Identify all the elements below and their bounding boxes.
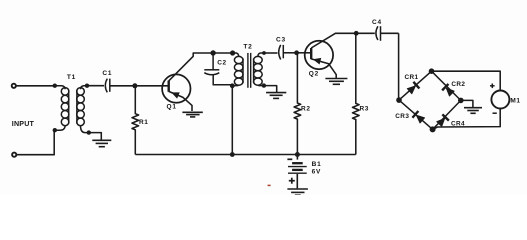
node bottom rail / R2 / B1 bbox=[295, 152, 300, 157]
ground below battery bbox=[287, 189, 308, 195]
wire bridge right vertex to ground bbox=[461, 100, 473, 107]
red speck artifact bbox=[268, 184, 271, 186]
node A (C1/R1/Q1 base) bbox=[132, 83, 137, 88]
input terminal top bbox=[12, 84, 16, 88]
input terminal bottom bbox=[12, 153, 16, 157]
battery minus sign bbox=[287, 158, 292, 160]
node T2 secondary top bbox=[262, 51, 266, 55]
node bridge left vertex bbox=[396, 97, 402, 103]
wire node B to Q2 base bbox=[297, 52, 312, 54]
svg-text:Q2: Q2 bbox=[309, 71, 319, 78]
diode CR3 bbox=[412, 111, 425, 124]
wire bridge top vertex to meter plus bbox=[432, 71, 501, 90]
wire input bottom to T1 primary bottom bbox=[17, 130, 55, 154]
transformer T2 core bbox=[248, 53, 251, 88]
wire T1 to C1 bbox=[87, 85, 104, 87]
svg-text:CR3: CR3 bbox=[395, 113, 409, 120]
svg-text:C3: C3 bbox=[276, 37, 286, 44]
svg-text:CR2: CR2 bbox=[451, 81, 465, 88]
node rail / R3 bbox=[354, 31, 359, 36]
transistor Q1 bbox=[162, 74, 190, 102]
svg-text:B1: B1 bbox=[312, 161, 322, 168]
node T1 primary bottom bbox=[53, 128, 57, 132]
capacitor C4 bbox=[376, 26, 381, 41]
node bridge bottom vertex bbox=[430, 126, 436, 132]
resistor R3 bbox=[352, 33, 359, 154]
bridge edge bottom-right bbox=[433, 100, 461, 129]
node T2 secondary bottom bbox=[262, 83, 266, 87]
transformer T1 primary winding bbox=[55, 86, 69, 131]
battery plus sign bbox=[289, 178, 295, 184]
wire node A to Q1 base bbox=[135, 85, 169, 87]
node bridge right vertex bbox=[458, 98, 464, 104]
capacitor C1 bbox=[105, 79, 110, 93]
transistor Q2 bbox=[305, 41, 333, 69]
ground below T1 bbox=[92, 140, 111, 146]
bridge edge left-bottom bbox=[399, 100, 433, 129]
node C2 / T2 primary bottom bbox=[230, 83, 235, 88]
wire T2 to C3 bbox=[264, 52, 278, 54]
svg-text:INPUT: INPUT bbox=[12, 120, 35, 128]
wire Q2 emitter to ground bbox=[311, 59, 336, 78]
svg-text:C1: C1 bbox=[102, 70, 112, 77]
transformer T2 secondary winding bbox=[254, 53, 264, 86]
svg-text:T1: T1 bbox=[67, 74, 76, 81]
wire bridge bottom vertex to meter minus bbox=[433, 109, 501, 130]
svg-text:R2: R2 bbox=[301, 105, 311, 112]
wire Q1 collector to top rail bbox=[169, 53, 233, 81]
meter minus sign bbox=[493, 112, 497, 114]
ground below T2 bbox=[266, 93, 286, 99]
wire input top to T1 primary bbox=[16, 85, 55, 87]
node top rail / C2 bbox=[210, 50, 215, 55]
node bottom rail / T2 bbox=[230, 152, 235, 157]
resistor R2 bbox=[294, 53, 301, 155]
battery B1 bbox=[288, 155, 307, 189]
wire Q2 collector to C4 rail bbox=[311, 33, 375, 48]
wire T1 secondary bottom to ground bbox=[89, 133, 102, 140]
node T1 primary top bbox=[53, 84, 57, 88]
node bridge top vertex bbox=[429, 68, 435, 74]
diode CR2 bbox=[442, 84, 455, 97]
wire C4 to bridge left vertex bbox=[398, 33, 400, 100]
node top rail / T2 primary top bbox=[230, 50, 235, 55]
ground below Q2 bbox=[325, 79, 347, 85]
svg-text:M1: M1 bbox=[510, 97, 520, 104]
svg-text:C4: C4 bbox=[372, 19, 382, 26]
bridge edge top-right bbox=[432, 71, 461, 100]
capacitor C3 bbox=[279, 45, 284, 60]
node T1 secondary top bbox=[85, 84, 89, 88]
node B (C3/R2/Q2 base) bbox=[294, 50, 299, 55]
node T1 secondary bottom bbox=[87, 130, 91, 134]
transformer T2 primary winding bbox=[232, 53, 243, 86]
svg-text:Q1: Q1 bbox=[167, 103, 177, 110]
meter M1 bbox=[491, 91, 509, 109]
capacitor C2 bbox=[204, 53, 232, 85]
wire C1 to node A bbox=[110, 85, 135, 87]
svg-text:6V: 6V bbox=[312, 168, 322, 175]
bridge edge left-top bbox=[399, 71, 432, 100]
svg-text:T2: T2 bbox=[243, 44, 252, 51]
ground at bridge bbox=[464, 108, 482, 114]
ground below Q1 bbox=[182, 112, 202, 117]
wire Q1 emitter to ground bbox=[169, 91, 192, 111]
wire node to bottom rail bbox=[231, 86, 233, 155]
svg-text:R1: R1 bbox=[139, 119, 149, 126]
wire C3 to node B bbox=[284, 52, 297, 54]
meter plus sign bbox=[490, 84, 495, 89]
svg-text:R3: R3 bbox=[359, 105, 369, 112]
diode CR4 bbox=[436, 114, 449, 127]
bottom rail bbox=[135, 154, 355, 156]
svg-text:CR1: CR1 bbox=[405, 74, 419, 81]
transformer T1 secondary winding bbox=[77, 86, 89, 133]
resistor R1 bbox=[132, 86, 139, 155]
diode CR1 bbox=[407, 82, 420, 95]
svg-text:C2: C2 bbox=[217, 59, 227, 66]
wire T2 secondary bottom to ground bbox=[264, 86, 277, 92]
